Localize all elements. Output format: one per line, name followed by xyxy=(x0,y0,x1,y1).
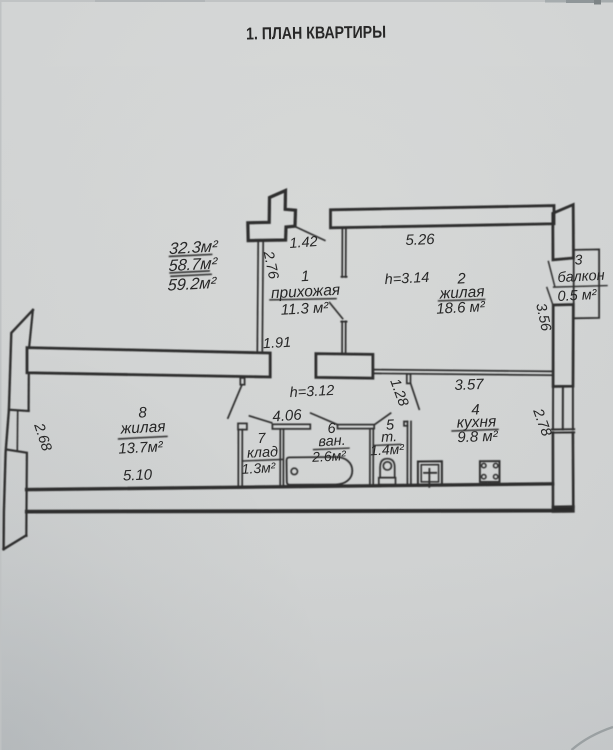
svg-text:балкон: балкон xyxy=(557,268,605,286)
stove burners xyxy=(482,463,486,467)
svg-text:1.4м²: 1.4м² xyxy=(370,441,406,459)
left window bottom sill xyxy=(6,450,26,453)
room8 door leaf xyxy=(228,385,242,418)
right wall kitchen section (double) xyxy=(553,433,573,508)
svg-text:3: 3 xyxy=(574,251,583,267)
svg-text:3.57: 3.57 xyxy=(454,376,484,394)
svg-text:1.42: 1.42 xyxy=(289,234,318,252)
underline балкон xyxy=(554,286,607,288)
underline жилая8 xyxy=(119,436,167,439)
bath door leaf xyxy=(311,413,338,425)
page edge top xyxy=(0,0,613,2)
4.06 leader left xyxy=(250,416,272,423)
underline жилая2 xyxy=(439,299,485,301)
bath/toilet divider (double) xyxy=(370,429,373,486)
left wall bottom miter xyxy=(4,535,27,549)
hallway left wall (double line) xyxy=(257,242,263,352)
underline 58.7 double xyxy=(170,271,211,276)
svg-text:11.3 м²: 11.3 м² xyxy=(280,299,329,319)
underline клад xyxy=(243,459,283,461)
entrance door leaf 1.42 xyxy=(295,227,325,241)
closet/bath top bar xyxy=(272,424,310,429)
kitchen sink outer xyxy=(418,461,442,485)
svg-text:9.8 м²: 9.8 м² xyxy=(457,428,499,446)
room1/room2 wall upper (double) xyxy=(341,228,346,277)
room1/room2 wall lower (double) xyxy=(341,321,346,352)
svg-text:5.26: 5.26 xyxy=(405,231,435,249)
page edge top smudge left xyxy=(95,0,205,2)
room 1 labels xyxy=(118,231,605,485)
svg-text:жилая: жилая xyxy=(119,418,166,437)
toilet door leaf xyxy=(374,413,390,425)
room8 door jamb xyxy=(240,378,244,385)
underline кухня xyxy=(452,429,498,431)
svg-text:58.7м²: 58.7м² xyxy=(168,254,218,275)
kitchen door jamb xyxy=(407,374,411,384)
bathtub drain xyxy=(291,468,297,474)
room2 top wall bar xyxy=(331,206,555,228)
svg-text:18.6 м²: 18.6 м² xyxy=(436,298,486,318)
svg-text:1.3м²: 1.3м² xyxy=(241,459,277,477)
rotated dimension labels xyxy=(30,249,554,453)
kitchen window sills xyxy=(552,429,575,433)
floor line bottom rooms xyxy=(27,484,553,490)
vent shaft polygon (top of hallway) xyxy=(248,191,296,241)
left window middle line xyxy=(16,411,18,451)
svg-text:0.5 м²: 0.5 м² xyxy=(557,287,598,305)
page curl arc bottom-right xyxy=(572,727,613,750)
kitchen door leaf xyxy=(411,383,420,409)
svg-text:2.6м²: 2.6м² xyxy=(311,447,348,465)
page edge left xyxy=(0,0,2,750)
room2 door leaf xyxy=(330,303,343,319)
area table text xyxy=(167,237,219,294)
underline туалет xyxy=(374,444,401,445)
svg-text:4.06: 4.06 xyxy=(272,406,303,425)
bottom-right wall corner xyxy=(553,507,573,512)
svg-text:h=3.14: h=3.14 xyxy=(384,270,430,288)
middle wall bar right (hall/corridor) xyxy=(316,354,373,379)
right wall top bar xyxy=(553,205,574,260)
bath top wall bar xyxy=(338,425,375,429)
left outer wall: outer edge with top miter xyxy=(4,310,33,549)
svg-text:прихожая: прихожая xyxy=(271,282,341,303)
page edge top smudge right xyxy=(545,0,613,3)
left outer wall: inner edge top xyxy=(29,310,33,348)
toilet tank xyxy=(379,478,396,485)
svg-text:1.91: 1.91 xyxy=(263,335,292,352)
left outer wall: inner edge middle xyxy=(28,373,30,410)
underline ван xyxy=(314,448,349,450)
svg-text:59.2м²: 59.2м² xyxy=(167,274,217,295)
bath left wall (double) xyxy=(280,429,283,486)
toilet seat circle xyxy=(383,462,391,470)
middle wall band (hall/room8) xyxy=(27,348,270,377)
left outer wall: inner edge lower xyxy=(25,453,28,536)
toilet bowl xyxy=(380,459,395,478)
balcony door slashes xyxy=(547,262,555,307)
bathtub xyxy=(287,457,353,485)
bottom outer wall line xyxy=(27,511,553,512)
stove xyxy=(480,461,500,482)
kitchen sink tap cross xyxy=(424,469,436,487)
svg-text:h=3.12: h=3.12 xyxy=(289,383,335,401)
closet left wall (double) xyxy=(238,430,242,486)
room2 window rect xyxy=(553,305,573,387)
svg-text:1. ПЛАН КВАРТИРЫ: 1. ПЛАН КВАРТИРЫ xyxy=(246,22,386,44)
closet door jamb xyxy=(238,423,247,429)
left window top sill xyxy=(9,410,29,411)
toilet/kitchen wall (double) xyxy=(407,422,411,486)
balcony outline xyxy=(574,249,599,318)
kitchen sink inner xyxy=(421,465,438,482)
room2/kitchen thin wall (double) xyxy=(374,370,553,376)
kitchen window xyxy=(553,386,573,429)
toilet/kitchen wall tick xyxy=(404,422,407,426)
underline прихожая xyxy=(270,299,336,300)
svg-text:5.10: 5.10 xyxy=(123,466,153,484)
underline 32.3 xyxy=(170,254,212,256)
svg-text:13.7м²: 13.7м² xyxy=(118,438,164,457)
